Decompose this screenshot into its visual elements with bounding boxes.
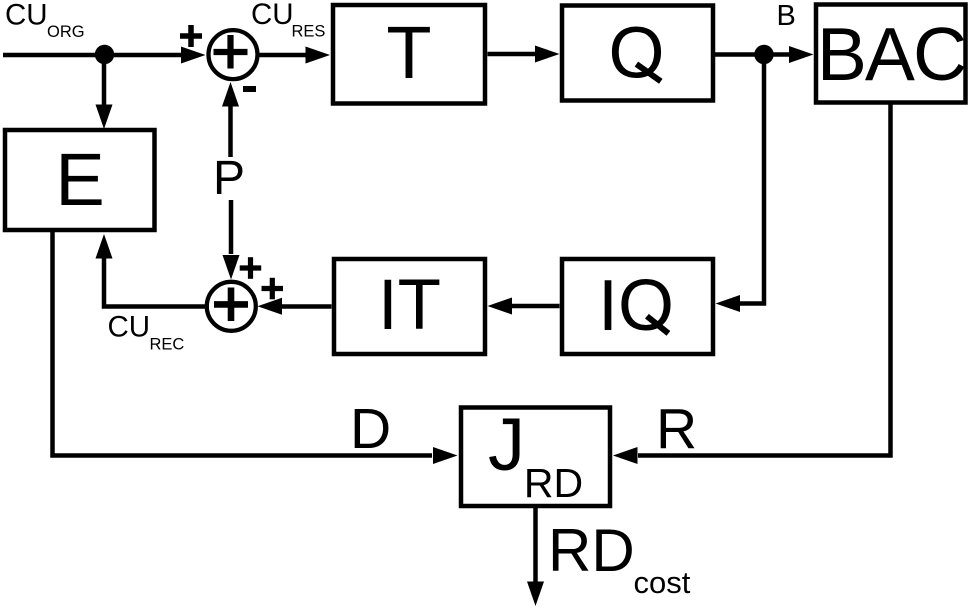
- block BAC: [816, 5, 966, 103]
- plus sign at S2 top input: [240, 257, 262, 279]
- svg-text:CU: CU: [108, 311, 151, 344]
- svg-text:BAC: BAC: [817, 12, 965, 96]
- block T: [333, 5, 485, 104]
- label CU_RES: [251, 0, 325, 41]
- wire: junction down to E: [96, 55, 113, 129]
- label RD cost: [548, 517, 691, 600]
- svg-text:E: E: [55, 138, 104, 221]
- block J_RD: [461, 403, 610, 506]
- block E: [5, 130, 155, 230]
- svg-text:RD: RD: [548, 517, 635, 584]
- svg-text:D: D: [350, 397, 391, 461]
- svg-text:REC: REC: [150, 336, 185, 354]
- svg-text:ORG: ORG: [47, 23, 85, 41]
- svg-text:T: T: [386, 11, 431, 94]
- wire: T to Q: [488, 46, 560, 63]
- svg-text:RD: RD: [524, 460, 583, 506]
- plus sign at S2 right input: [262, 278, 284, 300]
- wire: Q to BAC: [715, 46, 814, 63]
- wire: P to S1 minus input: [222, 82, 239, 157]
- svg-text:B: B: [777, 0, 796, 32]
- block IT: [334, 259, 485, 354]
- label CU_ORG: [5, 0, 85, 41]
- wire: S2 output to E (CU_REC): [96, 234, 207, 307]
- wire: P to S2 plus input: [223, 200, 240, 280]
- node B junction dot: [754, 45, 773, 64]
- node: input junction dot: [95, 45, 114, 64]
- plus sign at S1 input: [180, 25, 202, 47]
- summer S2: [207, 282, 256, 331]
- wire: IQ to IT: [488, 298, 560, 315]
- svg-text:J: J: [488, 403, 525, 486]
- summer S1: [209, 30, 258, 79]
- svg-text:R: R: [656, 397, 697, 461]
- wire: BAC to J rate path R: [613, 103, 891, 464]
- svg-text:IO: IO: [598, 266, 674, 346]
- svg-text:IT: IT: [378, 266, 441, 345]
- minus sign at S1 feedback input: [243, 86, 256, 92]
- svg-text:cost: cost: [634, 565, 691, 600]
- wire: E to J distortion path D: [53, 231, 458, 464]
- wire: B node down to IQ: [716, 55, 765, 313]
- svg-text:RES: RES: [292, 23, 326, 41]
- wire: input to summer S1: [3, 47, 206, 64]
- block IQ: [562, 259, 713, 354]
- svg-text:CU: CU: [5, 0, 48, 32]
- wire: S1 to T: [257, 47, 331, 64]
- svg-text:P: P: [213, 152, 245, 205]
- svg-text:CU: CU: [251, 0, 294, 31]
- wire: J output RDcost: [527, 508, 544, 606]
- block Q: [562, 6, 713, 101]
- wire: IT to S2: [258, 298, 332, 315]
- label CU_REC: [108, 311, 185, 354]
